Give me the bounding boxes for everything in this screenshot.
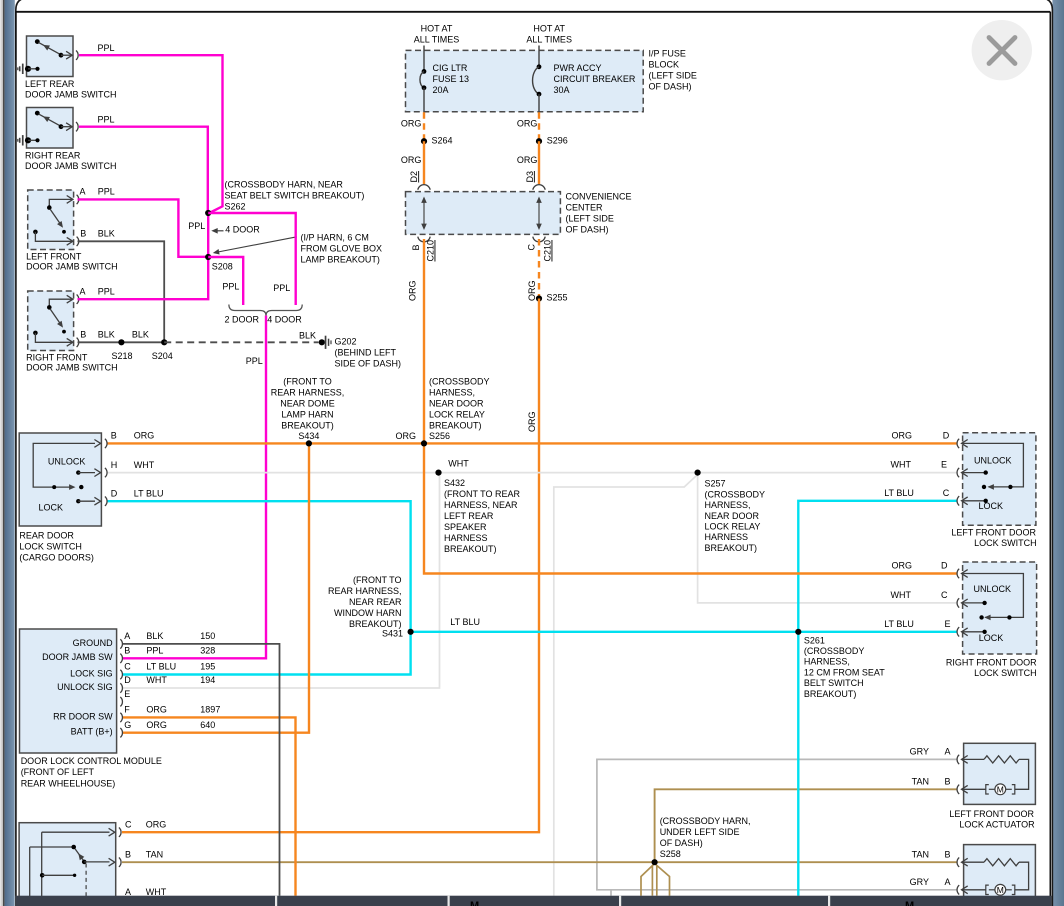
svg-text:(I/P HARN, 6 CM: (I/P HARN, 6 CM — [301, 232, 369, 242]
svg-text:20A: 20A — [433, 85, 449, 95]
svg-text:S218: S218 — [112, 351, 133, 361]
svg-text:REAR HARNESS,: REAR HARNESS, — [271, 388, 345, 398]
svg-text:GROUND: GROUND — [73, 638, 113, 648]
svg-text:NEAR DOOR: NEAR DOOR — [705, 511, 760, 521]
label ORG rotated — [527, 280, 537, 301]
wire BLK from LEFT FRONT jamb switch pin B to splice S204 — [78, 241, 165, 342]
switch LEFT REAR DOOR JAMB SWITCH — [17, 36, 116, 99]
svg-text:RIGHT FRONT DOOR: RIGHT FRONT DOOR — [946, 658, 1037, 668]
wire PPL from brace to DOOR LOCK CONTROL MODULE pin B — [122, 316, 266, 659]
svg-text:ORG: ORG — [401, 155, 422, 165]
svg-text:SIDE OF DASH): SIDE OF DASH) — [335, 358, 402, 368]
svg-text:DOOR JAMB SWITCH: DOOR JAMB SWITCH — [26, 363, 118, 373]
wire WHT from splice S257 down-left and to bottom — [554, 475, 698, 896]
svg-text:G: G — [124, 720, 131, 730]
svg-text:GRY: GRY — [910, 747, 929, 757]
svg-text:150: 150 — [200, 631, 215, 641]
svg-text:S204: S204 — [152, 351, 173, 361]
wire LT BLU from LEFT FRONT DOOR LOCK SWITCH pin C down through splice S261 to bottom — [798, 501, 957, 896]
wire ORG bus from REAR DOOR LOCK SWITCH pin B to LEFT FRONT DOOR LOCK SWITCH pin D — [107, 442, 957, 444]
svg-text:OF DASH): OF DASH) — [566, 225, 609, 235]
diagram frame right border — [1049, 12, 1051, 906]
svg-text:ORG: ORG — [146, 820, 167, 830]
arrow 4 DOOR pointer — [213, 230, 223, 232]
svg-text:(FRONT OF LEFT: (FRONT OF LEFT — [21, 767, 95, 777]
svg-text:C210: C210 — [426, 240, 436, 262]
switch REAR DOOR LOCK SWITCH — [19, 433, 107, 526]
svg-text:HARNESS, NEAR: HARNESS, NEAR — [444, 500, 518, 510]
splice S256 with note CROSSBODY HARNESS NEAR DOOR LOCK RELAY BREAKOUT — [421, 440, 427, 446]
splice S208 — [205, 254, 211, 260]
svg-text:HARNESS,: HARNESS, — [705, 500, 751, 510]
svg-text:A: A — [945, 877, 951, 887]
wire ORG from S264 to connector D2 — [423, 141, 425, 184]
wire BLK from RIGHT FRONT jamb switch pin B through S218 to S204 — [78, 341, 165, 343]
svg-text:CONVENIENCE: CONVENIENCE — [566, 192, 632, 202]
wire BLK dashed from S204 to ground G202 — [164, 341, 318, 343]
note I/P HARN 6 CM from glove box lamp breakout with arrow to S208 — [215, 237, 296, 253]
svg-text:WHT: WHT — [891, 590, 912, 600]
svg-text:LEFT REAR: LEFT REAR — [444, 511, 494, 521]
svg-text:328: 328 — [200, 646, 215, 656]
svg-text:S262: S262 — [225, 202, 246, 212]
svg-text:BLK: BLK — [299, 330, 316, 340]
wire TAN from rear actuator pin B through splice S258 to RIGHT FRONT DOOR LOCK ACTUATOR pin B — [122, 861, 957, 863]
svg-text:(FRONT TO: (FRONT TO — [353, 575, 402, 585]
svg-text:S261: S261 — [804, 635, 825, 645]
svg-text:TAN: TAN — [912, 777, 929, 787]
svg-text:(CARGO DOORS): (CARGO DOORS) — [19, 553, 94, 563]
svg-text:LT BLU: LT BLU — [450, 617, 480, 627]
svg-text:ORG: ORG — [517, 155, 538, 165]
svg-text:PPL: PPL — [98, 287, 115, 297]
svg-text:ORG: ORG — [134, 431, 155, 441]
svg-text:BATT (B+): BATT (B+) — [71, 727, 113, 737]
pin label C210 right — [543, 240, 553, 262]
svg-text:PPL: PPL — [246, 356, 263, 366]
svg-text:PPL: PPL — [222, 282, 239, 292]
svg-text:D: D — [124, 675, 131, 685]
splice S432 with note FRONT TO REAR HARNESS NEAR LEFT REAR SPEAKER HARNESS BREAKOUT — [435, 470, 441, 476]
svg-text:4 DOOR: 4 DOOR — [267, 314, 302, 324]
svg-text:M: M — [997, 885, 1004, 895]
connector arc above convenience center left — [418, 185, 430, 190]
wire LT BLU from REAR DOOR LOCK SWITCH pin D to DOOR LOCK CONTROL MODULE pin C via S431 — [107, 501, 411, 674]
svg-text:PPL: PPL — [98, 43, 115, 53]
svg-text:C: C — [943, 488, 950, 498]
svg-text:PPL: PPL — [188, 221, 205, 231]
svg-text:ORG: ORG — [146, 720, 167, 730]
svg-text:FROM GLOVE BOX: FROM GLOVE BOX — [301, 243, 383, 253]
svg-text:(CROSSBODY: (CROSSBODY — [804, 646, 865, 656]
svg-text:S255: S255 — [547, 293, 568, 303]
svg-text:LOCK SWITCH: LOCK SWITCH — [19, 542, 82, 552]
svg-text:DOOR LOCK CONTROL MODULE: DOOR LOCK CONTROL MODULE — [21, 756, 162, 766]
svg-text:GRY: GRY — [910, 877, 929, 887]
svg-text:BLK: BLK — [146, 631, 163, 641]
right blue strip — [1052, 0, 1064, 906]
left gray page edge — [0, 0, 3, 906]
svg-text:C: C — [941, 590, 948, 600]
svg-text:RIGHT FRONT: RIGHT FRONT — [26, 353, 88, 363]
svg-text:ORG: ORG — [401, 119, 422, 129]
diagram frame top border — [16, 11, 1051, 13]
close button — [972, 20, 1032, 80]
label ORG rotated — [527, 411, 537, 432]
svg-text:WHT: WHT — [146, 887, 167, 897]
left blue strip — [5, 0, 15, 906]
svg-text:FUSE 13: FUSE 13 — [433, 74, 470, 84]
svg-text:RIGHT REAR: RIGHT REAR — [25, 151, 81, 161]
svg-text:ORG: ORG — [395, 431, 416, 441]
wire ORG dashed breaker to splice S296 — [538, 112, 540, 139]
svg-text:M: M — [997, 784, 1004, 794]
wire ORG from C210 pin B down to splice S256 — [423, 239, 425, 443]
arrow through convenience center right — [538, 199, 540, 229]
splice S204 — [161, 339, 167, 345]
svg-text:ORG: ORG — [891, 430, 912, 440]
svg-text:OF DASH): OF DASH) — [649, 81, 692, 91]
switch RIGHT FRONT DOOR JAMB SWITCH — [26, 291, 118, 373]
splice S431 with note FRONT TO REAR HARNESS NEAR REAR WINDOW HARN BREAKOUT — [408, 629, 414, 635]
svg-text:B: B — [80, 330, 86, 340]
svg-text:E: E — [941, 460, 947, 470]
svg-text:ORG: ORG — [527, 280, 537, 301]
splice S258 with note CROSSBODY HARN UNDER LEFT SIDE OF DASH — [652, 859, 658, 865]
switch LEFT FRONT DOOR LOCK SWITCH — [957, 433, 1036, 526]
wire GRY from LEFT FRONT DOOR LOCK ACTUATOR pin A to RIGHT FRONT DOOR LOCK ACTUATOR pin A — [597, 759, 957, 889]
svg-text:UNLOCK: UNLOCK — [48, 457, 86, 467]
svg-text:BLOCK: BLOCK — [649, 59, 680, 69]
svg-text:WHT: WHT — [448, 459, 469, 469]
svg-text:A: A — [945, 747, 951, 757]
ground G202 — [319, 339, 325, 345]
svg-text:ALL TIMES: ALL TIMES — [526, 35, 572, 45]
wire faint box edge at bottom — [610, 890, 612, 896]
svg-text:G202: G202 — [335, 336, 357, 346]
svg-text:WHT: WHT — [134, 460, 155, 470]
svg-text:TAN: TAN — [146, 849, 163, 859]
svg-text:CIRCUIT BREAKER: CIRCUIT BREAKER — [554, 74, 636, 84]
svg-text:(FRONT TO: (FRONT TO — [283, 377, 332, 387]
wire WHT from splice S257 to RIGHT FRONT DOOR LOCK SWITCH pin C — [698, 473, 957, 603]
splice S218 — [118, 339, 124, 345]
svg-text:640: 640 — [200, 720, 215, 730]
svg-text:ORG: ORG — [517, 119, 538, 129]
wire PPL vertical from S262 to S208 — [207, 213, 209, 257]
svg-text:B: B — [80, 229, 86, 239]
svg-text:ORG: ORG — [527, 411, 537, 432]
svg-text:30A: 30A — [554, 85, 570, 95]
svg-text:DOOR JAMB SW: DOOR JAMB SW — [42, 652, 113, 662]
wire WHT from splice S432 to DOOR LOCK CONTROL MODULE pin D — [122, 473, 440, 688]
svg-text:195: 195 — [200, 662, 215, 672]
diagram background — [17, 36, 401, 658]
svg-text:DOOR JAMB SWITCH: DOOR JAMB SWITCH — [25, 161, 117, 171]
svg-text:M: M — [470, 900, 479, 906]
svg-text:REAR HARNESS,: REAR HARNESS, — [328, 586, 402, 596]
svg-text:ALL TIMES: ALL TIMES — [414, 35, 460, 45]
label ORG rotated — [408, 280, 418, 301]
svg-text:4 DOOR: 4 DOOR — [225, 224, 260, 234]
svg-text:CIG LTR: CIG LTR — [433, 63, 468, 73]
box CONVENIENCE CENTER — [406, 192, 561, 235]
svg-text:HARNESS,: HARNESS, — [804, 657, 850, 667]
svg-text:REAR WHEELHOUSE): REAR WHEELHOUSE) — [21, 778, 116, 788]
svg-text:UNLOCK: UNLOCK — [974, 584, 1012, 594]
svg-text:LOCK: LOCK — [979, 501, 1004, 511]
svg-text:HARNESS,: HARNESS, — [429, 388, 475, 398]
svg-text:WINDOW HARN: WINDOW HARN — [334, 608, 402, 618]
svg-text:NEAR DOME: NEAR DOME — [280, 399, 335, 409]
svg-text:HARNESS: HARNESS — [705, 532, 749, 542]
svg-text:LEFT FRONT: LEFT FRONT — [26, 252, 82, 262]
svg-text:ORG: ORG — [408, 280, 418, 301]
brace 2 DOOR / 4 DOOR — [229, 305, 302, 316]
svg-text:NEAR REAR: NEAR REAR — [349, 597, 402, 607]
svg-text:C: C — [124, 662, 131, 672]
svg-text:H: H — [111, 460, 118, 470]
actuator RIGHT FRONT DOOR LOCK ACTUATOR (partial) — [957, 845, 1035, 906]
svg-text:1897: 1897 — [200, 705, 220, 715]
svg-text:PPL: PPL — [98, 114, 115, 124]
svg-text:S257: S257 — [705, 479, 726, 489]
svg-text:HOT AT: HOT AT — [421, 24, 453, 34]
pin label C — [527, 244, 537, 251]
svg-text:LOCK ACTUATOR: LOCK ACTUATOR — [959, 819, 1035, 829]
svg-text:BREAKOUT): BREAKOUT) — [705, 543, 758, 553]
wire ORG from splice S256 to RIGHT FRONT DOOR LOCK SWITCH pin D — [424, 443, 957, 573]
wire PPL from S208 to 2 DOOR brace — [208, 257, 243, 305]
svg-text:(CROSSBODY: (CROSSBODY — [705, 489, 766, 499]
svg-text:LT BLU: LT BLU — [884, 488, 914, 498]
svg-text:UNDER LEFT SIDE: UNDER LEFT SIDE — [660, 827, 740, 837]
wire PPL from S262 to 4 DOOR brace — [208, 213, 296, 305]
svg-text:PPL: PPL — [98, 187, 115, 197]
svg-text:LOCK RELAY: LOCK RELAY — [429, 410, 485, 420]
svg-text:E: E — [945, 619, 951, 629]
svg-text:S296: S296 — [547, 136, 568, 146]
wire ORG from splice S434 to DOOR LOCK CONTROL MODULE pin G — [122, 443, 309, 732]
svg-text:S258: S258 — [660, 849, 681, 859]
svg-text:LOCK: LOCK — [39, 503, 64, 513]
svg-text:SPEAKER: SPEAKER — [444, 522, 487, 532]
wire ORG from S255 down to rear lock actuator pin C — [122, 299, 539, 833]
diagram frame left border — [15, 12, 17, 906]
splice S261 with note CROSSBODY HARNESS 12 CM FROM SEAT BELT SWITCH BREAKOUT — [795, 629, 801, 635]
svg-text:BELT SWITCH: BELT SWITCH — [804, 678, 864, 688]
svg-text:E: E — [124, 689, 130, 699]
svg-text:SEAT BELT SWITCH BREAKOUT): SEAT BELT SWITCH BREAKOUT) — [225, 191, 365, 201]
wire BLK from DOOR LOCK CONTROL MODULE pin A to bottom — [122, 644, 280, 896]
svg-text:OF DASH): OF DASH) — [660, 838, 703, 848]
connector arc below convenience center left — [418, 237, 430, 242]
svg-text:B: B — [125, 849, 131, 859]
svg-text:S208: S208 — [212, 261, 233, 271]
svg-text:LOCK SWITCH: LOCK SWITCH — [974, 538, 1037, 548]
splice S257 with note CROSSBODY HARNESS NEAR DOOR LOCK RELAY HARNESS BREAKOUT — [695, 470, 701, 476]
svg-text:M: M — [905, 900, 914, 906]
svg-text:2 DOOR: 2 DOOR — [225, 314, 260, 324]
svg-text:F: F — [124, 705, 130, 715]
svg-text:D3: D3 — [525, 171, 535, 183]
arrow through convenience center left — [423, 199, 425, 229]
svg-text:LEFT FRONT DOOR: LEFT FRONT DOOR — [951, 528, 1036, 538]
pin label B — [411, 244, 421, 250]
svg-text:PPL: PPL — [273, 283, 290, 293]
svg-text:WHT: WHT — [146, 675, 167, 685]
wire PPL from LEFT FRONT jamb switch pin A to splice S208 — [78, 199, 206, 256]
svg-text:DOOR JAMB SWITCH: DOOR JAMB SWITCH — [26, 262, 118, 272]
svg-text:D2: D2 — [409, 171, 419, 183]
svg-text:HOT AT: HOT AT — [533, 24, 565, 34]
svg-text:194: 194 — [200, 675, 215, 685]
wire LT BLU from splice S431 to RIGHT FRONT DOOR LOCK SWITCH pin E — [411, 631, 957, 633]
splice S255 — [536, 295, 542, 301]
svg-text:WHT: WHT — [891, 460, 912, 470]
svg-text:BLK: BLK — [132, 330, 149, 340]
svg-text:LOCK SWITCH: LOCK SWITCH — [974, 668, 1037, 678]
svg-text:TAN: TAN — [912, 849, 929, 859]
svg-text:HARNESS: HARNESS — [444, 533, 488, 543]
svg-text:BREAKOUT): BREAKOUT) — [429, 421, 482, 431]
wire WHT bus from REAR DOOR LOCK SWITCH pin H to LEFT FRONT DOOR LOCK SWITCH pin E — [107, 472, 957, 474]
svg-text:C: C — [125, 820, 132, 830]
splice S434 with note FRONT TO REAR HARNESS NEAR DOME LAMP HARN BREAKOUT — [306, 440, 312, 446]
svg-text:ORG: ORG — [891, 561, 912, 571]
svg-text:LAMP BREAKOUT): LAMP BREAKOUT) — [301, 254, 380, 264]
wire ORG from S296 to connector D3 — [538, 141, 540, 184]
svg-text:I/P FUSE: I/P FUSE — [649, 48, 686, 58]
svg-text:BREAKOUT): BREAKOUT) — [281, 421, 334, 431]
svg-text:LT BLU: LT BLU — [146, 662, 176, 672]
svg-text:PPL: PPL — [146, 646, 163, 656]
splice S264 — [421, 138, 427, 144]
svg-text:(CROSSBODY HARN, NEAR: (CROSSBODY HARN, NEAR — [225, 180, 344, 190]
circuit breaker PWR ACCY 30A — [538, 46, 540, 67]
wire PPL from LEFT REAR jamb switch to splice S262 — [79, 55, 223, 213]
svg-text:12 CM FROM SEAT: 12 CM FROM SEAT — [804, 667, 885, 677]
svg-text:D: D — [941, 561, 948, 571]
svg-text:B: B — [124, 646, 130, 656]
svg-text:B: B — [111, 431, 117, 441]
connector arc below convenience center right — [533, 237, 545, 242]
actuator LEFT FRONT DOOR LOCK ACTUATOR — [957, 743, 1035, 804]
wire PPL from RIGHT REAR jamb switch to splice S262 — [79, 127, 208, 212]
svg-text:LT BLU: LT BLU — [884, 619, 914, 629]
svg-text:B: B — [945, 849, 951, 859]
box I/P FUSE BLOCK — [406, 50, 644, 111]
svg-text:RR DOOR SW: RR DOOR SW — [53, 711, 113, 721]
wire ORG dashed fuse to splice S264 — [423, 112, 425, 139]
wire ORG dashed from C210 pin C to splice S255 — [538, 239, 540, 297]
svg-text:D: D — [943, 430, 950, 440]
svg-text:A: A — [124, 631, 130, 641]
svg-text:ORG: ORG — [146, 705, 167, 715]
svg-text:B: B — [411, 244, 421, 250]
pin label D2 connector — [409, 171, 419, 183]
svg-text:A: A — [80, 187, 86, 197]
svg-text:(CROSSBODY HARN,: (CROSSBODY HARN, — [660, 816, 751, 826]
svg-text:UNLOCK: UNLOCK — [974, 455, 1012, 465]
pin label D3 connector — [525, 171, 535, 183]
svg-text:BLK: BLK — [98, 229, 115, 239]
switch LEFT FRONT DOOR JAMB SWITCH — [26, 190, 118, 272]
svg-text:BREAKOUT): BREAKOUT) — [804, 689, 857, 699]
svg-text:REAR DOOR: REAR DOOR — [19, 530, 74, 540]
svg-text:CENTER: CENTER — [566, 203, 604, 213]
svg-text:(CROSSBODY: (CROSSBODY — [429, 377, 490, 387]
svg-text:BREAKOUT): BREAKOUT) — [444, 544, 497, 554]
svg-text:S432: S432 — [444, 478, 465, 488]
fuse CIG LTR FUSE 13 20A — [423, 46, 425, 72]
svg-text:(LEFT SIDE: (LEFT SIDE — [649, 70, 697, 80]
module DOOR LOCK CONTROL MODULE — [20, 629, 123, 753]
svg-text:LEFT REAR: LEFT REAR — [25, 79, 75, 89]
wire TAN from splice S258 up to LEFT FRONT DOOR LOCK ACTUATOR pin B — [655, 789, 957, 862]
connector arc above convenience center right — [533, 185, 545, 190]
splice S296 — [536, 138, 542, 144]
svg-text:(BEHIND LEFT: (BEHIND LEFT — [335, 347, 397, 357]
left dark edge line — [3, 0, 5, 906]
svg-text:S431: S431 — [382, 628, 403, 638]
svg-text:S434: S434 — [298, 431, 319, 441]
svg-text:LAMP HARN: LAMP HARN — [281, 410, 333, 420]
wire ORG from DOOR LOCK CONTROL MODULE pin F to bottom — [122, 717, 296, 895]
svg-text:D: D — [111, 488, 118, 498]
svg-text:UNLOCK SIG: UNLOCK SIG — [57, 682, 113, 692]
svg-text:B: B — [945, 777, 951, 787]
bottom toolbar — [16, 896, 1052, 906]
svg-text:LOCK: LOCK — [979, 633, 1004, 643]
svg-text:LOCK RELAY: LOCK RELAY — [705, 522, 761, 532]
svg-text:S264: S264 — [432, 136, 453, 146]
svg-text:BLK: BLK — [98, 330, 115, 340]
svg-text:LOCK SIG: LOCK SIG — [70, 668, 113, 678]
svg-text:(FRONT TO REAR: (FRONT TO REAR — [444, 489, 521, 499]
svg-text:LT BLU: LT BLU — [134, 488, 164, 498]
wire TAN harness fan below splice S258 — [641, 864, 655, 896]
svg-text:PWR ACCY: PWR ACCY — [554, 63, 602, 73]
svg-text:NEAR DOOR: NEAR DOOR — [429, 399, 484, 409]
svg-text:A: A — [80, 287, 86, 297]
switch RIGHT FRONT DOOR LOCK SWITCH — [957, 562, 1037, 654]
svg-text:DOOR JAMB SWITCH: DOOR JAMB SWITCH — [25, 89, 117, 99]
svg-text:C: C — [527, 244, 537, 251]
svg-text:LEFT FRONT DOOR: LEFT FRONT DOOR — [949, 809, 1034, 819]
switch RIGHT REAR DOOR JAMB SWITCH — [17, 108, 116, 171]
pin label C210 left — [426, 240, 436, 262]
svg-text:C210: C210 — [543, 240, 553, 262]
svg-text:A: A — [125, 887, 131, 897]
svg-text:S256: S256 — [429, 431, 450, 441]
switch rear door lock actuator assembly (partial) — [19, 823, 121, 906]
wire PPL from RIGHT FRONT jamb switch pin A to splice S208 — [78, 259, 209, 299]
svg-text:(LEFT SIDE: (LEFT SIDE — [566, 214, 614, 224]
splice S262 — [205, 210, 211, 216]
